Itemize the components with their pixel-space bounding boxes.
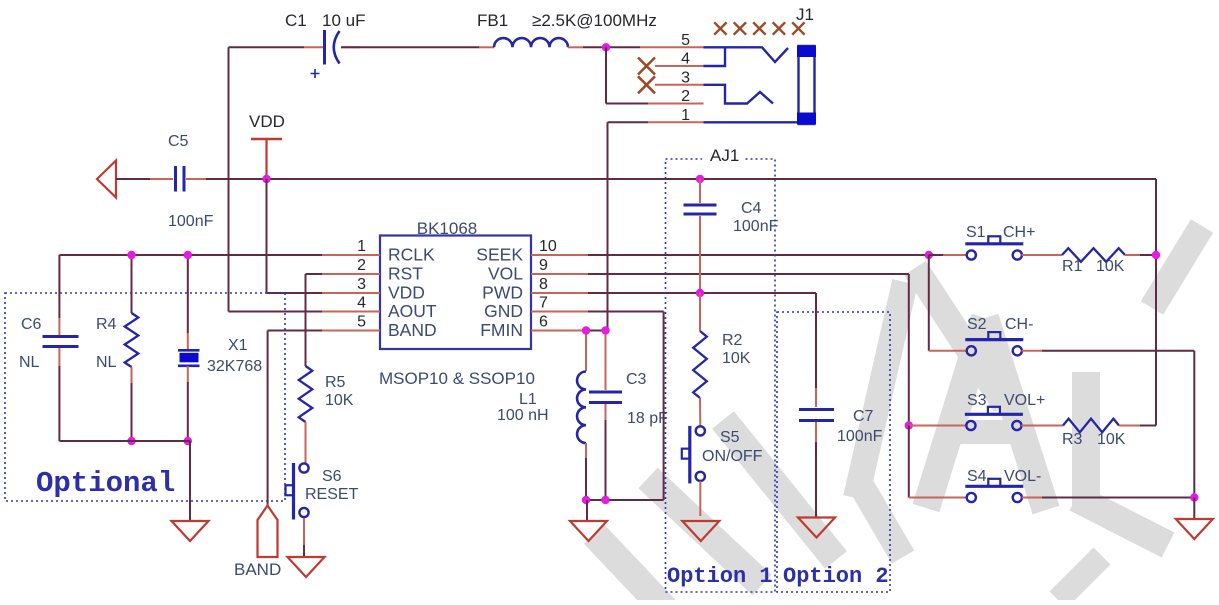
svg-text:RCLK: RCLK (388, 245, 435, 265)
node R1 right rail (1152, 251, 1160, 259)
resistor R2 (699, 293, 701, 331)
wire to bottom-right ground (1193, 498, 1195, 520)
svg-text:RST: RST (388, 264, 423, 284)
node X1 top (184, 251, 192, 259)
wire RST net corner (pin2) (306, 273, 323, 275)
no-connect X J1 pin3 (638, 76, 655, 93)
svg-text:R2: R2 (722, 332, 743, 349)
node X1 bottom (184, 437, 192, 445)
svg-text:L1: L1 (519, 391, 537, 408)
svg-text:VOL+: VOL+ (1004, 392, 1045, 409)
pin 4 AOUT (322, 311, 380, 313)
wire S6 to ground (303, 518, 305, 545)
svg-text:C1: C1 (285, 11, 307, 30)
switch S4 VOL- (908, 426, 910, 498)
wire J1 pin1 down to FMIN node (607, 122, 609, 330)
svg-text:5: 5 (357, 314, 366, 331)
power VDD symbol (251, 138, 282, 141)
svg-text:10K: 10K (325, 392, 354, 409)
svg-text:Optional: Optional (36, 467, 175, 500)
svg-text:VOL: VOL (488, 264, 523, 284)
node VDD junction (262, 175, 270, 183)
node FB1/J1 junction (602, 43, 610, 51)
svg-text:S4: S4 (967, 468, 987, 485)
svg-text:100 nH: 100 nH (497, 407, 549, 424)
capacitor C4 (696, 175, 704, 183)
svg-text:1: 1 (357, 238, 366, 255)
wire GND pin7 to tank (588, 311, 664, 313)
svg-text:CH+: CH+ (1003, 224, 1035, 241)
svg-text:C3: C3 (626, 371, 647, 388)
resistor R1 (1022, 254, 1040, 256)
svg-text:VDD: VDD (249, 112, 285, 131)
svg-text:1: 1 (681, 107, 690, 124)
port arrow left (97, 161, 116, 198)
pin 2 RST (322, 273, 380, 275)
AJ1 box dashed (666, 159, 776, 592)
ground L1/C3 (586, 500, 588, 521)
svg-text:C4: C4 (741, 200, 762, 217)
svg-text:3: 3 (357, 276, 366, 293)
switch S3 VOL+ (905, 421, 913, 429)
ground S5 (682, 521, 719, 541)
node C4/R2 on PWD (696, 289, 704, 297)
resistor R4 (125, 313, 139, 367)
svg-text:10K: 10K (722, 350, 751, 367)
connector J1 no-connect X marks (714, 22, 726, 34)
wire S1 left down to S2 (928, 255, 930, 351)
svg-text:6: 6 (539, 314, 548, 331)
wire rail to X1 (187, 255, 189, 333)
svg-text:Option 2: Option 2 (783, 564, 889, 589)
node R4 top (127, 251, 135, 259)
svg-text:8: 8 (539, 276, 548, 293)
svg-text:10K: 10K (1096, 258, 1125, 275)
svg-text:BAND: BAND (388, 320, 437, 340)
ground S6 (288, 557, 325, 577)
svg-text:X1: X1 (228, 337, 248, 354)
svg-text:S1: S1 (966, 224, 986, 241)
svg-text:9: 9 (539, 257, 548, 274)
svg-text:AOUT: AOUT (388, 301, 437, 321)
wire AOUT net (pin4) from C1 (228, 47, 230, 311)
svg-text:≥2.5K@100MHz: ≥2.5K@100MHz (532, 11, 657, 30)
capacitor C6 (43, 335, 79, 338)
svg-text:100nF: 100nF (837, 428, 883, 445)
pin 8 PWD (531, 292, 588, 294)
option2 box dashed (777, 312, 890, 592)
svg-text:CH-: CH- (1005, 316, 1033, 333)
wire left rail down to C6 (58, 255, 60, 318)
svg-text:S3: S3 (967, 392, 987, 409)
svg-text:Option 1: Option 1 (667, 564, 773, 589)
svg-text:AJ1: AJ1 (710, 146, 739, 165)
capacitor C5 (174, 166, 177, 192)
pin 5 BAND (322, 330, 380, 332)
node FMIN L1 (588, 330, 608, 332)
op-amp U1 BK1068 IC body (380, 236, 531, 350)
svg-text:FB1: FB1 (477, 11, 508, 30)
optional box dashed (5, 293, 285, 501)
pin 9 VOL (531, 273, 588, 275)
svg-text:C5: C5 (168, 133, 189, 150)
wire optional bottom rail (59, 440, 190, 442)
svg-text:PWD: PWD (482, 283, 523, 303)
svg-text:C7: C7 (853, 408, 874, 425)
capacitor C3 (605, 331, 607, 391)
svg-text:C6: C6 (21, 316, 42, 333)
ferrite bead FB1 (494, 38, 568, 47)
svg-text:3: 3 (681, 69, 690, 86)
pin 1 RCLK (322, 254, 380, 256)
svg-text:2: 2 (357, 257, 366, 274)
crystal X1 (178, 349, 200, 352)
wire C5 to right rail corner (186, 178, 206, 180)
wire PWD net (588, 292, 816, 294)
wire C1 to FB1 (341, 46, 479, 48)
svg-text:32K768: 32K768 (207, 358, 262, 375)
wire VDD down to pin3 (266, 179, 268, 293)
svg-text:4: 4 (681, 51, 690, 68)
svg-text:10: 10 (539, 238, 557, 255)
switch S5 ON/OFF (696, 426, 705, 435)
pin 7 GND (531, 311, 588, 313)
svg-text:R4: R4 (96, 316, 117, 333)
svg-text:FMIN: FMIN (480, 320, 523, 340)
no-connect X J1 pin4 (638, 58, 655, 75)
switch S2 CH- (929, 350, 967, 352)
ground bottom right (1176, 519, 1213, 539)
ground C7 (798, 518, 835, 538)
svg-text:2: 2 (681, 88, 690, 105)
wire junction to J1 pin5 (640, 46, 704, 48)
wire top-left corner to C1 (229, 46, 305, 48)
capacitor C1 (323, 30, 326, 65)
svg-text:J1: J1 (796, 5, 814, 24)
wire S5 to ground (699, 481, 701, 516)
svg-text:S2: S2 (967, 316, 987, 333)
svg-text:MSOP10 & SSOP10: MSOP10 & SSOP10 (379, 369, 535, 388)
pin 10 SEEK (531, 254, 588, 256)
svg-text:10 uF: 10 uF (322, 11, 365, 30)
inductor L1 (585, 331, 587, 372)
wire tank bottom rail (586, 499, 664, 501)
svg-text:7: 7 (539, 295, 548, 312)
svg-text:SEEK: SEEK (476, 245, 523, 265)
wire right rail from top (1155, 179, 1157, 426)
svg-text:S5: S5 (720, 429, 740, 446)
wire R2 to S5 (699, 398, 701, 426)
svg-text:100nF: 100nF (168, 213, 214, 230)
svg-text:18 pF: 18 pF (627, 410, 668, 427)
wire FB1 to junction (568, 46, 583, 48)
wire RCLK net (pin1) (59, 254, 322, 256)
wire junction down to J1 pin2 (605, 47, 607, 103)
switch S6 (299, 463, 308, 472)
svg-text:RESET: RESET (305, 486, 359, 503)
svg-text:VDD: VDD (388, 283, 425, 303)
svg-text:GND: GND (484, 301, 523, 321)
svg-text:4: 4 (357, 295, 366, 312)
wire rail to R4 (131, 255, 133, 313)
wire R5 to S6 (305, 422, 307, 463)
pin 3 VDD (322, 292, 380, 294)
svg-text:R1: R1 (1062, 258, 1083, 275)
node R4 bottom (127, 437, 135, 445)
ground optional (172, 521, 209, 541)
wire VOL net (588, 273, 909, 275)
resistor R5 (299, 366, 313, 422)
svg-text:10K: 10K (1097, 431, 1126, 448)
svg-text:ON/OFF: ON/OFF (702, 448, 763, 465)
svg-text:R3: R3 (1062, 431, 1083, 448)
connector J1 body (704, 46, 815, 124)
svg-text:BAND: BAND (234, 560, 281, 579)
connector BAND offpage (258, 506, 278, 558)
svg-text:R5: R5 (325, 374, 346, 391)
wire BAND net corner (pin5) (268, 330, 322, 332)
resistor R3 (1021, 425, 1063, 427)
capacitor C7 (815, 388, 817, 407)
svg-text:S6: S6 (322, 468, 342, 485)
svg-text:VOL-: VOL- (1004, 468, 1041, 485)
svg-text:NL: NL (19, 354, 40, 371)
capacitor C1 stubs (304, 46, 323, 48)
node S4 right (1190, 493, 1198, 501)
svg-text:100nF: 100nF (733, 218, 779, 235)
svg-text:BK1068: BK1068 (417, 219, 478, 238)
svg-text:5: 5 (681, 32, 690, 49)
svg-text:NL: NL (96, 354, 117, 371)
wire SEEK net (588, 254, 929, 256)
pin 6 FMIN (531, 330, 588, 332)
wire arrow to C5 (116, 178, 150, 180)
switch S1 CH+ (925, 251, 933, 259)
